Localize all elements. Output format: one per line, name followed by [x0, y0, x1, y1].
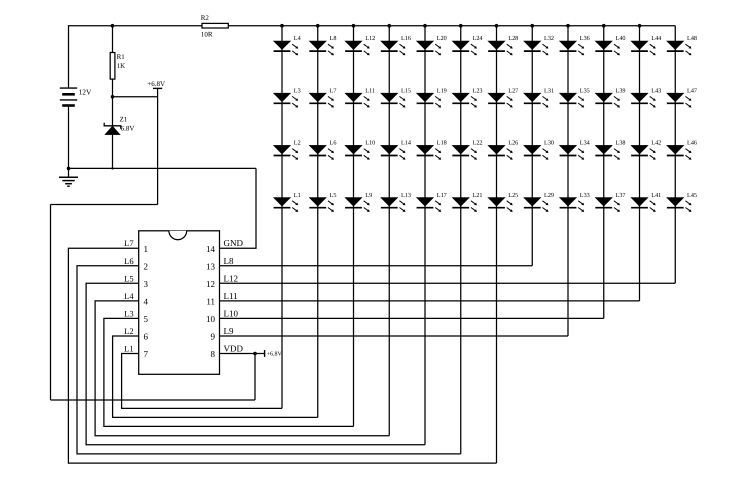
- LED label L43: [651, 87, 661, 94]
- pin 8 number: [211, 349, 216, 359]
- LED label L17: [437, 192, 447, 199]
- LED L43: [631, 93, 656, 107]
- LED label L39: [616, 87, 626, 94]
- wire pin 2 net L6 to LED column 6: [77, 266, 461, 454]
- LED label L27: [508, 87, 518, 94]
- pin 3 number: [144, 279, 149, 289]
- svg-text:L30: L30: [544, 140, 554, 147]
- svg-text:GND: GND: [224, 238, 244, 248]
- LED label L31: [544, 87, 554, 94]
- junction R1 / zener / +6.8V node: [111, 95, 115, 99]
- svg-text:L28: L28: [508, 35, 518, 42]
- svg-text:R1: R1: [117, 53, 126, 61]
- pin 7 number: [144, 349, 149, 359]
- svg-text:L12: L12: [365, 35, 375, 42]
- wire LED column 8 vertical: [531, 26, 533, 266]
- LED label L20: [437, 35, 447, 42]
- junction top bus / LED column 3: [352, 24, 356, 28]
- LED label L40: [616, 35, 626, 42]
- pin 2 number: [144, 261, 149, 271]
- LED L35: [560, 93, 585, 107]
- svg-text:L32: L32: [544, 35, 554, 42]
- IC U1 14-pin DIP body: [139, 231, 220, 374]
- svg-text:L19: L19: [437, 87, 447, 94]
- +6.8V net label (top): [147, 80, 165, 88]
- ground symbol: [59, 177, 78, 186]
- pin 11 number: [206, 296, 215, 306]
- LED L28: [488, 41, 513, 55]
- LED label L18: [437, 140, 447, 147]
- net label L4 (pin 4): [124, 291, 134, 301]
- svg-text:L6: L6: [330, 140, 337, 147]
- svg-text:L6: L6: [124, 256, 133, 266]
- junction VDD pin wire / riser: [253, 352, 257, 356]
- svg-text:L10: L10: [224, 308, 239, 318]
- wire net L8 pin 13 to LED column 8: [220, 265, 533, 267]
- net label L10 (pin 10): [224, 308, 239, 318]
- LED label L25: [508, 192, 518, 199]
- svg-text:+6.8V: +6.8V: [267, 352, 283, 358]
- svg-text:L11: L11: [224, 291, 238, 301]
- LED L4: [274, 41, 299, 55]
- svg-text:R2: R2: [201, 14, 210, 22]
- svg-text:L45: L45: [687, 192, 697, 199]
- pin 1 number: [144, 244, 149, 254]
- +6.8V supply terminal (VDD): [264, 350, 266, 357]
- wire +6.8V node to zener Z1: [112, 97, 114, 126]
- junction top bus / LED column 8: [530, 24, 534, 28]
- LED L11: [345, 93, 370, 107]
- LED L15: [381, 93, 406, 107]
- svg-text:L3: L3: [124, 308, 133, 318]
- LED L37: [595, 198, 620, 212]
- svg-text:L9: L9: [365, 192, 372, 199]
- LED label L7: [330, 87, 337, 94]
- LED L16: [381, 41, 406, 55]
- svg-text:VDD: VDD: [224, 344, 244, 354]
- svg-text:L15: L15: [401, 87, 411, 94]
- pin 4 number: [144, 296, 149, 306]
- svg-text:L4: L4: [124, 291, 134, 301]
- svg-text:L7: L7: [330, 87, 337, 94]
- svg-text:6.8V: 6.8V: [121, 125, 135, 133]
- wire GND pin 14 to ground rail: [220, 168, 257, 248]
- LED L22: [452, 145, 477, 159]
- LED L30: [524, 145, 549, 159]
- pin 9 number: [211, 332, 216, 342]
- LED label L32: [544, 35, 554, 42]
- svg-text:L11: L11: [365, 87, 375, 94]
- LED L10: [345, 145, 370, 159]
- junction top bus / LED column 2: [316, 24, 320, 28]
- LED label L24: [473, 35, 483, 42]
- LED L31: [524, 93, 549, 107]
- LED label L22: [473, 140, 483, 147]
- junction top bus / R1 branch: [111, 24, 115, 28]
- svg-text:L40: L40: [616, 35, 626, 42]
- net label L6 (pin 2): [124, 256, 133, 266]
- svg-text:L20: L20: [437, 35, 447, 42]
- wire net L9 pin 9 to LED column 9: [220, 335, 569, 337]
- svg-text:L17: L17: [437, 192, 447, 199]
- svg-text:5: 5: [144, 314, 149, 324]
- LED label L16: [401, 35, 411, 42]
- resistor R1: [110, 53, 115, 80]
- svg-text:L34: L34: [580, 140, 590, 147]
- wire LED column 9 vertical: [567, 26, 569, 336]
- LED label L5: [330, 192, 337, 199]
- junction top bus / LED column 4: [387, 24, 391, 28]
- LED L8: [309, 41, 334, 55]
- LED L9: [345, 198, 370, 212]
- wire pin 3 net L5 to LED column 5: [86, 283, 425, 444]
- svg-text:7: 7: [144, 349, 149, 359]
- junction top bus / LED column 7: [495, 24, 499, 28]
- svg-text:9: 9: [211, 332, 216, 342]
- svg-text:L4: L4: [294, 35, 301, 42]
- wire battery positive to top bus corner: [69, 26, 113, 88]
- LED label L46: [687, 140, 697, 147]
- LED L36: [560, 41, 585, 55]
- svg-text:L21: L21: [473, 192, 483, 199]
- LED L29: [524, 198, 549, 212]
- wire pin 5 net L3 to LED column 3: [104, 318, 354, 426]
- R1 value label 1K: [117, 62, 126, 70]
- LED L45: [667, 198, 692, 212]
- svg-text:Z1: Z1: [120, 115, 128, 123]
- wire pin 1 net L7 to LED column 7: [68, 248, 496, 463]
- LED L20: [417, 41, 442, 55]
- LED L24: [452, 41, 477, 55]
- wire LED column 2 vertical: [317, 26, 319, 418]
- LED L18: [417, 145, 442, 159]
- net label L5 (pin 3): [124, 273, 133, 283]
- LED label L2: [294, 140, 301, 147]
- LED L19: [417, 93, 442, 107]
- svg-text:L12: L12: [224, 273, 239, 283]
- wire VDD riser: [254, 354, 256, 401]
- svg-text:L43: L43: [651, 87, 661, 94]
- LED label L9: [365, 192, 372, 199]
- wire pin 7 net L1 to LED column 1: [122, 354, 282, 409]
- svg-text:L38: L38: [616, 140, 626, 147]
- wire zener anode to ground rail: [112, 135, 114, 169]
- junction top bus / LED column 9: [566, 24, 570, 28]
- LED label L14: [401, 140, 411, 147]
- svg-text:1K: 1K: [117, 62, 126, 70]
- wire +6.8V node down past ground rail: [157, 97, 159, 205]
- LED L32: [524, 41, 549, 55]
- svg-text:L27: L27: [508, 87, 518, 94]
- svg-text:L26: L26: [508, 140, 518, 147]
- svg-text:L2: L2: [294, 140, 301, 147]
- svg-text:L44: L44: [651, 35, 661, 42]
- R2 reference label: [201, 14, 210, 22]
- wire +6.8V node east to terminal riser: [113, 96, 158, 98]
- junction top bus / LED column 1: [280, 24, 284, 28]
- wire LED column 6 vertical: [460, 26, 462, 454]
- LED L27: [488, 93, 513, 107]
- zener diode Z1 (cathode bar with ticks, triangle apex up): [104, 123, 121, 135]
- svg-text:L5: L5: [124, 273, 133, 283]
- Z1 value label 6.8V: [121, 125, 135, 133]
- wire LED column 5 vertical: [424, 26, 426, 445]
- LED L23: [452, 93, 477, 107]
- svg-text:2: 2: [144, 261, 149, 271]
- LED label L8: [330, 35, 337, 42]
- pin 14 number: [206, 244, 216, 254]
- svg-text:L29: L29: [544, 192, 554, 199]
- pin 12 number: [206, 279, 215, 289]
- wire top bus to R1: [112, 26, 114, 53]
- LED label L15: [401, 87, 411, 94]
- pin 13 number: [206, 261, 216, 271]
- LED label L19: [437, 87, 447, 94]
- LED label L35: [580, 87, 590, 94]
- +6.8V net label (VDD): [267, 352, 283, 358]
- LED L38: [595, 145, 620, 159]
- LED L12: [345, 41, 370, 55]
- wire pin 6 net L2 to LED column 2: [113, 336, 318, 417]
- svg-text:1: 1: [144, 244, 149, 254]
- svg-text:L1: L1: [294, 192, 301, 199]
- junction top bus / LED column 10: [602, 24, 606, 28]
- LED label L4: [294, 35, 301, 42]
- svg-text:L8: L8: [224, 256, 234, 266]
- svg-text:L8: L8: [330, 35, 337, 42]
- LED label L36: [580, 35, 590, 42]
- wire +6.8V loop east segment to VDD riser: [51, 399, 256, 401]
- LED label L34: [580, 140, 590, 147]
- LED label L28: [508, 35, 518, 42]
- svg-text:10: 10: [206, 314, 216, 324]
- wire net L12 pin 12 to LED column 12: [220, 282, 676, 284]
- LED label L38: [616, 140, 626, 147]
- svg-text:L1: L1: [124, 344, 133, 354]
- svg-text:3: 3: [144, 279, 149, 289]
- svg-text:L18: L18: [437, 140, 447, 147]
- svg-text:12V: 12V: [79, 87, 93, 96]
- LED L39: [595, 93, 620, 107]
- LED L14: [381, 145, 406, 159]
- LED label L30: [544, 140, 554, 147]
- net label L8 (pin 13): [224, 256, 234, 266]
- svg-text:L42: L42: [651, 140, 661, 147]
- wire top bus battery-side to R2: [113, 25, 203, 27]
- LED L17: [417, 198, 442, 212]
- svg-text:6: 6: [144, 332, 149, 342]
- wire LED column 7 vertical: [496, 26, 498, 463]
- LED L46: [667, 145, 692, 159]
- LED label L47: [687, 87, 697, 94]
- svg-text:L24: L24: [473, 35, 483, 42]
- LED L26: [488, 145, 513, 159]
- svg-text:L31: L31: [544, 87, 554, 94]
- LED label L3: [294, 87, 301, 94]
- LED L7: [309, 93, 334, 107]
- net label L2 (pin 6): [124, 326, 133, 336]
- svg-text:+6.8V: +6.8V: [147, 80, 165, 88]
- svg-text:L14: L14: [401, 140, 411, 147]
- LED L40: [595, 41, 620, 55]
- svg-text:L13: L13: [401, 192, 411, 199]
- pin 6 number: [144, 332, 149, 342]
- net label L9 (pin 9): [224, 326, 234, 336]
- svg-text:L23: L23: [473, 87, 483, 94]
- junction zener / ground rail: [111, 167, 113, 169]
- svg-text:11: 11: [206, 296, 215, 306]
- wire LED column 1 vertical: [281, 26, 283, 409]
- net label L12 (pin 12): [224, 273, 239, 283]
- svg-text:L3: L3: [294, 87, 301, 94]
- svg-text:L48: L48: [687, 35, 697, 42]
- LED L5: [309, 198, 334, 212]
- +6.8V supply terminal (top): [153, 88, 162, 96]
- LED label L12: [365, 35, 375, 42]
- wire LED column 3 vertical: [353, 26, 355, 427]
- LED label L23: [473, 87, 483, 94]
- svg-text:L47: L47: [687, 87, 697, 94]
- LED L2: [274, 145, 299, 159]
- wire LED column 12 vertical: [674, 26, 676, 284]
- net label L3 (pin 5): [124, 308, 133, 318]
- LED label L26: [508, 140, 518, 147]
- LED label L29: [544, 192, 554, 199]
- wire R1 to +6.8V node: [112, 79, 114, 97]
- svg-text:12: 12: [206, 279, 215, 289]
- svg-text:L7: L7: [124, 238, 133, 248]
- svg-text:4: 4: [144, 296, 149, 306]
- wire battery negative down to ground rail: [68, 106, 70, 169]
- ground rail wire (battery to GND pin riser): [69, 167, 257, 169]
- svg-text:L41: L41: [651, 192, 661, 199]
- battery value label 12V: [79, 87, 93, 96]
- svg-text:L39: L39: [616, 87, 626, 94]
- LED L48: [667, 41, 692, 55]
- Z1 reference label: [120, 115, 128, 123]
- LED label L6: [330, 140, 337, 147]
- resistor R2: [202, 23, 228, 28]
- svg-text:L46: L46: [687, 140, 697, 147]
- LED label L33: [580, 192, 590, 199]
- junction top bus / LED column 6: [459, 24, 463, 28]
- svg-text:L36: L36: [580, 35, 590, 42]
- LED label L21: [473, 192, 483, 199]
- pin 10 number: [206, 314, 216, 324]
- svg-text:10R: 10R: [201, 31, 213, 39]
- junction top bus / LED column 11: [638, 24, 642, 28]
- battery B1 12V, positive top: [60, 88, 77, 105]
- LED label L1: [294, 192, 301, 199]
- svg-text:14: 14: [206, 244, 216, 254]
- LED L47: [667, 93, 692, 107]
- LED L6: [309, 145, 334, 159]
- wire ground rail to earth symbol: [68, 168, 70, 177]
- LED L41: [631, 198, 656, 212]
- LED L13: [381, 198, 406, 212]
- net label L7 (pin 1): [124, 238, 133, 248]
- svg-text:L33: L33: [580, 192, 590, 199]
- LED L1: [274, 198, 299, 212]
- svg-text:L22: L22: [473, 140, 483, 147]
- wire +6.8V loop west segment: [51, 204, 158, 206]
- svg-text:13: 13: [206, 261, 216, 271]
- net label VDD (pin 8): [224, 344, 244, 354]
- LED label L13: [401, 192, 411, 199]
- svg-text:L5: L5: [330, 192, 337, 199]
- LED label L37: [616, 192, 626, 199]
- LED L42: [631, 145, 656, 159]
- LED label L11: [365, 87, 375, 94]
- net label GND (pin 14): [224, 238, 244, 248]
- wire LED column 11 vertical: [639, 26, 641, 301]
- wire +6.8V loop down segment: [50, 205, 52, 401]
- LED label L10: [365, 140, 375, 147]
- LED L3: [274, 93, 299, 107]
- LED label L42: [651, 140, 661, 147]
- svg-text:L2: L2: [124, 326, 133, 336]
- LED L21: [452, 198, 477, 212]
- svg-text:8: 8: [211, 349, 216, 359]
- R2 value label 10R: [201, 31, 213, 39]
- R1 reference label: [117, 53, 126, 61]
- LED L33: [560, 198, 585, 212]
- wire VDD pin 8 to +6.8V terminal: [220, 353, 265, 355]
- svg-text:L35: L35: [580, 87, 590, 94]
- wire R2 to LED column bus: [228, 25, 675, 27]
- net label L1 (pin 7): [124, 344, 133, 354]
- net label L11 (pin 11): [224, 291, 238, 301]
- svg-text:L10: L10: [365, 140, 375, 147]
- wire pin 4 net L4 to LED column 4: [95, 301, 389, 436]
- junction top bus / LED column 5: [423, 24, 427, 28]
- svg-text:L16: L16: [401, 35, 411, 42]
- LED label L41: [651, 192, 661, 199]
- LED label L48: [687, 35, 697, 42]
- wire net L10 pin 10 to LED column 10: [220, 317, 604, 319]
- junction battery / ground rail: [67, 167, 71, 171]
- LED label L45: [687, 192, 697, 199]
- LED L25: [488, 198, 513, 212]
- wire LED column 4 vertical: [388, 26, 390, 436]
- svg-text:L25: L25: [508, 192, 518, 199]
- LED label L44: [651, 35, 661, 42]
- wire LED column 10 vertical: [603, 26, 605, 319]
- LED L44: [631, 41, 656, 55]
- svg-text:L37: L37: [616, 192, 626, 199]
- svg-text:L9: L9: [224, 326, 234, 336]
- wire net L11 pin 11 to LED column 11: [220, 300, 640, 302]
- pin 5 number: [144, 314, 149, 324]
- LED L34: [560, 145, 585, 159]
